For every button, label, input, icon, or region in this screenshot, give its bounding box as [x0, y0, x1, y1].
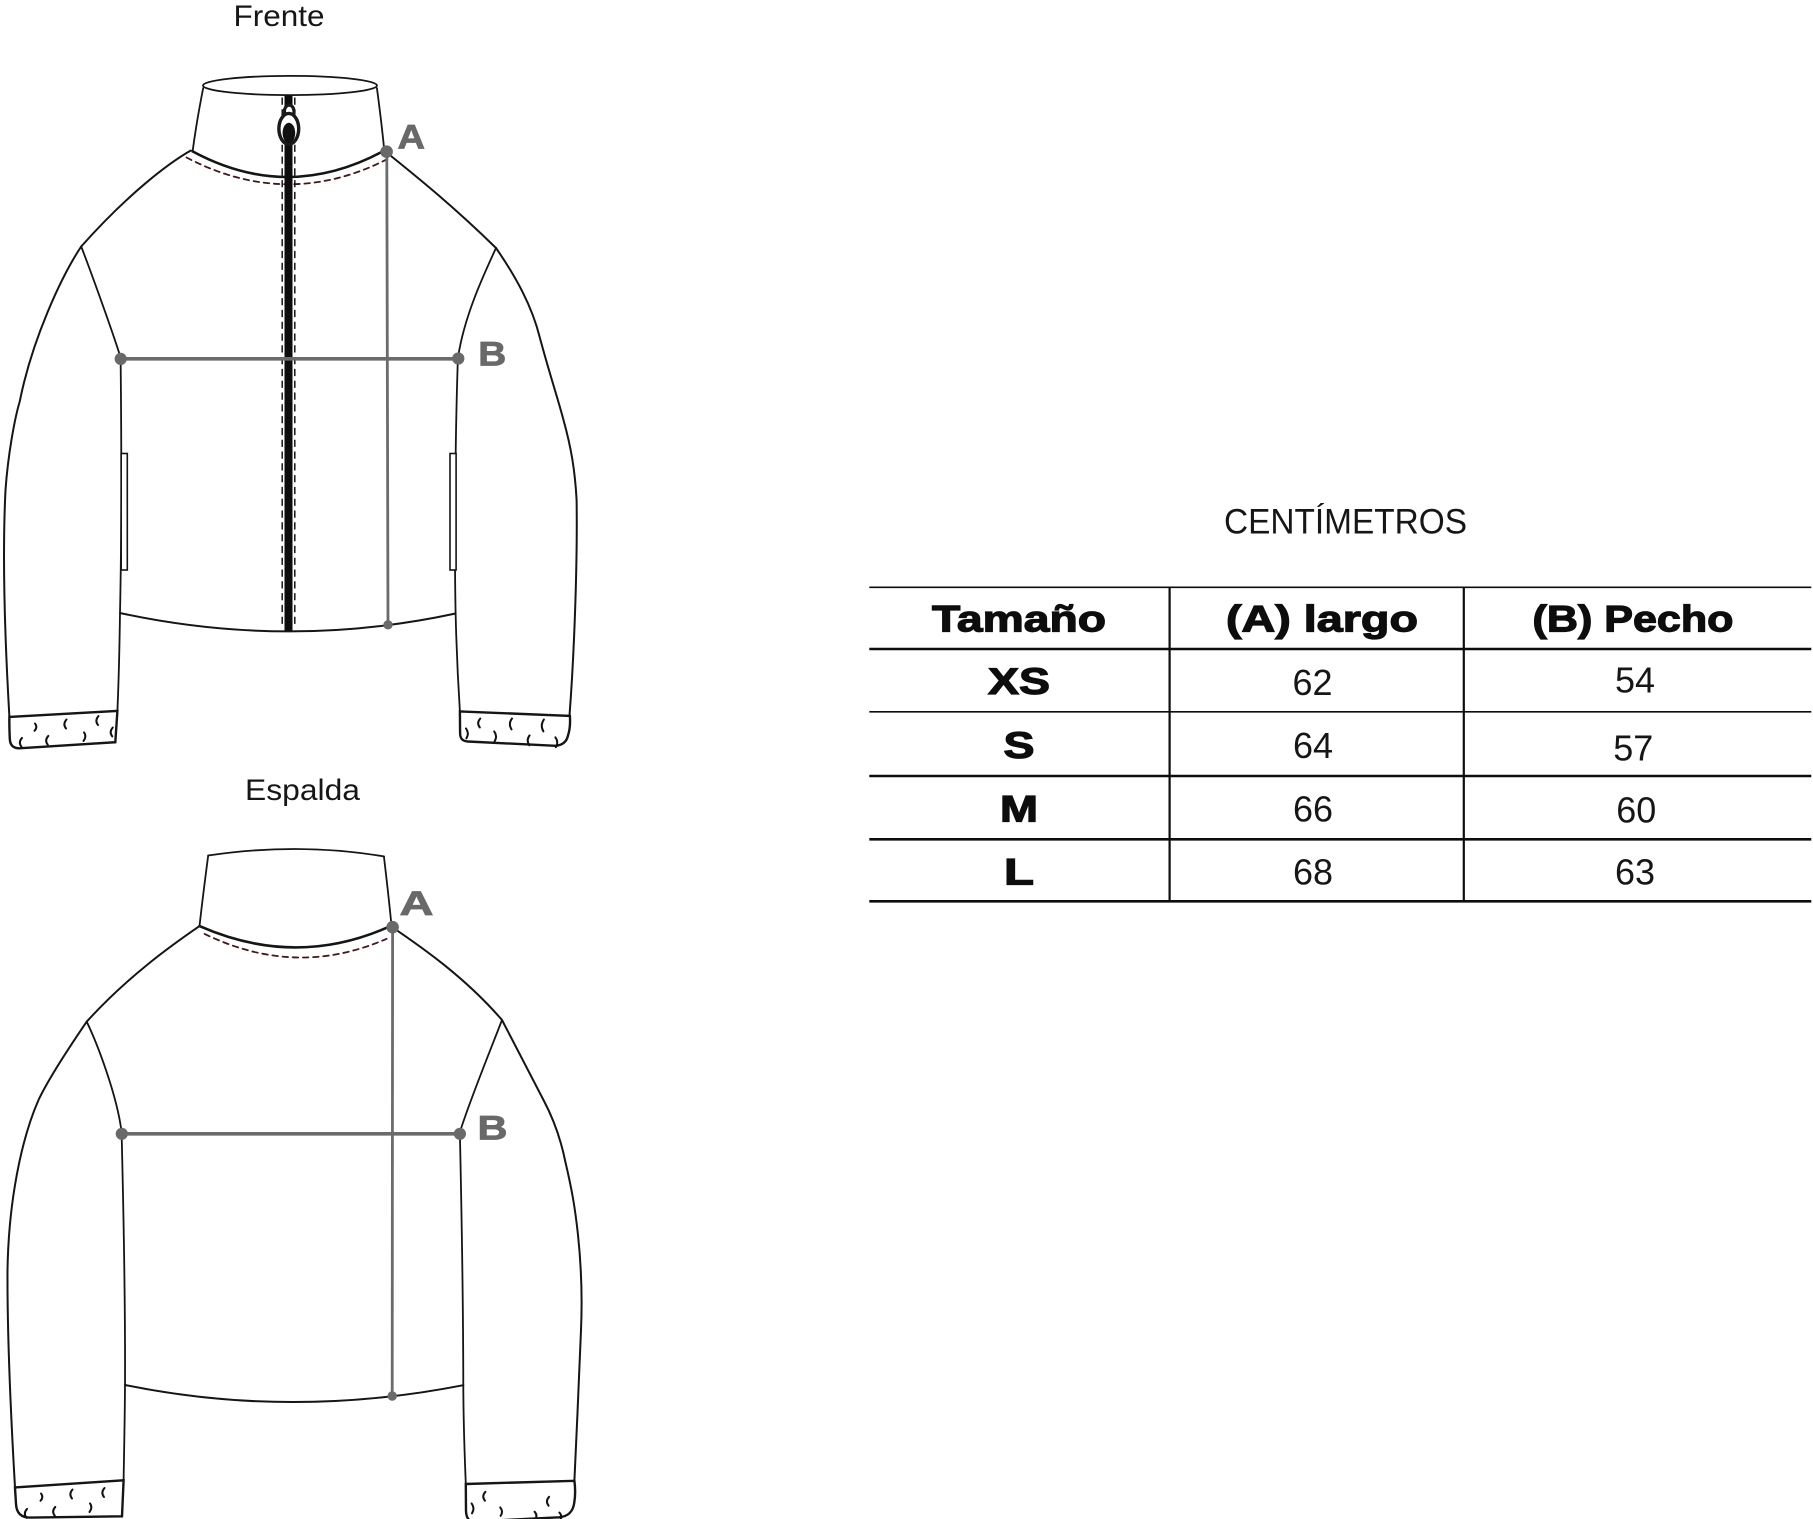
svg-text:62: 62 — [1292, 662, 1332, 703]
svg-text:B: B — [478, 335, 506, 373]
svg-text:Frente: Frente — [234, 0, 325, 33]
svg-text:Espalda: Espalda — [245, 774, 360, 807]
svg-text:63: 63 — [1615, 852, 1655, 893]
svg-text:M: M — [1000, 789, 1038, 830]
svg-text:54: 54 — [1615, 660, 1655, 701]
svg-text:60: 60 — [1616, 790, 1656, 831]
svg-text:CENTÍMETROS: CENTÍMETROS — [1224, 503, 1467, 542]
svg-text:68: 68 — [1293, 852, 1333, 893]
svg-text:A: A — [398, 119, 426, 157]
svg-text:(B) Pecho: (B) Pecho — [1533, 599, 1734, 640]
svg-text:Tamaño: Tamaño — [932, 599, 1106, 640]
svg-text:A: A — [400, 885, 434, 923]
svg-text:B: B — [478, 1110, 508, 1148]
svg-text:(A) largo: (A) largo — [1226, 599, 1418, 640]
svg-text:L: L — [1004, 852, 1034, 893]
svg-text:57: 57 — [1613, 728, 1653, 769]
svg-text:S: S — [1004, 725, 1035, 766]
svg-text:66: 66 — [1293, 789, 1333, 830]
svg-text:XS: XS — [988, 661, 1050, 702]
svg-text:64: 64 — [1293, 725, 1333, 766]
